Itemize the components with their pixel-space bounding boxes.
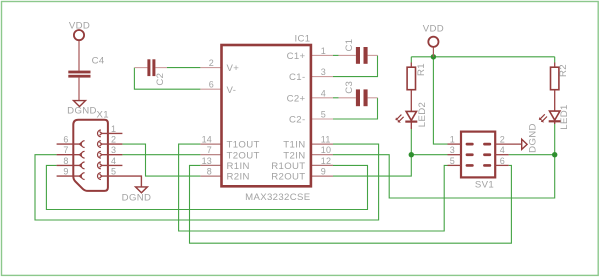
junction LED1 / SV1 pin 4 xyxy=(552,152,557,157)
svg-text:4: 4 xyxy=(500,145,505,155)
svg-text:8: 8 xyxy=(63,156,68,166)
capacitor C4 xyxy=(68,40,90,100)
supply VDD right symbol xyxy=(428,37,438,57)
svg-text:T1IN: T1IN xyxy=(283,140,305,151)
pin stub C3 right xyxy=(368,97,378,99)
X1 pin 1 line xyxy=(102,132,123,134)
resistor R2 xyxy=(551,67,559,90)
svg-text:C1: C1 xyxy=(344,39,355,52)
wire C2 right plate to IC V+ (pin 2) xyxy=(167,67,200,69)
svg-text:4: 4 xyxy=(111,156,116,166)
svg-text:8: 8 xyxy=(207,167,212,177)
svg-text:LED1: LED1 xyxy=(559,104,570,129)
ground DGND below C4 xyxy=(74,101,86,107)
LED2 xyxy=(397,111,417,129)
X1 pin 9 line xyxy=(57,175,80,177)
X1 pin 8 line xyxy=(57,164,80,166)
ground DGND below X1 pin 5 xyxy=(136,187,148,193)
svg-text:LED2: LED2 xyxy=(417,102,428,127)
svg-text:DGND: DGND xyxy=(528,123,539,153)
capacitor C1 xyxy=(356,47,368,64)
svg-text:C4: C4 xyxy=(92,56,105,67)
svg-text:X1: X1 xyxy=(97,109,109,120)
capacitor C3 xyxy=(356,89,368,106)
svg-text:5: 5 xyxy=(450,156,455,166)
svg-text:11: 11 xyxy=(321,135,331,145)
svg-text:5: 5 xyxy=(321,110,326,120)
svg-text:VDD: VDD xyxy=(69,20,90,31)
wire IC C2+ (pin 4) to C3 xyxy=(333,97,339,99)
connector X1 DB9 shell xyxy=(73,120,108,191)
resistor R1 xyxy=(407,67,415,90)
wire X1 pin 7 to IC T1IN (pin 11) xyxy=(35,144,379,220)
pin stub IC pin 4 C2+ xyxy=(311,97,333,99)
svg-text:6: 6 xyxy=(500,156,505,166)
wire IC R1IN (pin 13) to SV1 pin 6 xyxy=(190,165,512,243)
junction below VDD xyxy=(431,54,436,59)
X1 pin 4 line xyxy=(102,164,123,166)
pin stub IC pin 8 R2IN xyxy=(200,175,221,177)
wire IC T1OUT (pin 14) to SV1 pin 5 xyxy=(179,144,448,231)
svg-text:6: 6 xyxy=(209,80,214,90)
svg-text:12: 12 xyxy=(321,156,331,166)
header SV1 body xyxy=(461,132,495,178)
svg-text:R2OUT: R2OUT xyxy=(271,172,305,183)
svg-text:DGND: DGND xyxy=(122,192,152,203)
pin stub C2 right xyxy=(155,67,167,69)
svg-text:V+: V+ xyxy=(227,63,240,74)
pin stub IC pin 2 V+ xyxy=(200,67,221,69)
svg-text:R1: R1 xyxy=(416,63,427,76)
svg-text:10: 10 xyxy=(321,145,331,155)
svg-text:3: 3 xyxy=(321,67,326,77)
pin stub IC pin 6 V- xyxy=(200,88,221,90)
svg-text:2: 2 xyxy=(111,135,116,145)
svg-text:V-: V- xyxy=(227,85,237,96)
wire IC C1+ (pin 1) to C1 xyxy=(333,54,339,56)
svg-text:R2: R2 xyxy=(558,64,569,77)
svg-text:9: 9 xyxy=(321,167,326,177)
svg-text:C1-: C1- xyxy=(289,72,306,83)
svg-text:SV1: SV1 xyxy=(475,180,494,191)
svg-text:C2+: C2+ xyxy=(287,93,306,104)
junction LED2 / SV1 pin 3 xyxy=(409,152,414,157)
svg-text:3: 3 xyxy=(450,145,455,155)
capacitor C2 xyxy=(147,59,155,76)
wire IC R2OUT (pin 9) to LED2 and SV1 pin 3 xyxy=(333,129,448,176)
IC U1 MAX3232CSE body xyxy=(222,45,311,186)
pin stub C1 right xyxy=(368,54,378,56)
svg-text:1: 1 xyxy=(450,135,455,145)
X1 pin 3 line xyxy=(102,154,123,156)
resistor R1 pins xyxy=(410,63,412,112)
wire IC T2IN (pin 10) to LED1 and SV1 pin 4 xyxy=(333,124,555,198)
svg-text:2: 2 xyxy=(500,135,505,145)
svg-text:3: 3 xyxy=(111,145,116,155)
pin stub C3 left xyxy=(339,97,356,99)
svg-text:T1OUT: T1OUT xyxy=(227,140,260,151)
X1 contacts (right column pins 1-5) xyxy=(98,130,102,180)
SV1 pin lines xyxy=(448,144,522,165)
SV1 pads xyxy=(466,143,492,167)
pin stub IC pin 12 R1OUT xyxy=(311,164,333,166)
pin stub IC pin 13 R1IN xyxy=(200,164,221,166)
svg-text:T2OUT: T2OUT xyxy=(227,150,260,161)
pin stub IC pin 11 T1IN xyxy=(311,143,333,145)
svg-text:IC1: IC1 xyxy=(295,34,311,45)
svg-text:C2-: C2- xyxy=(289,115,306,126)
svg-text:C1+: C1+ xyxy=(287,51,306,62)
pin stub IC pin 10 T2IN xyxy=(311,154,333,156)
ground DGND at SV1 pin 2 xyxy=(522,139,527,149)
svg-text:1: 1 xyxy=(111,124,116,134)
X1 pin 5 line to DGND xyxy=(102,176,142,187)
wire C1 right plate to IC C1- (pin 3) xyxy=(333,55,378,76)
supply VDD left symbol xyxy=(74,30,84,40)
svg-text:C3: C3 xyxy=(344,81,355,94)
LED1 xyxy=(540,111,560,124)
X1 contacts (left column pins 6-9) xyxy=(79,141,84,180)
X1 pin 6 line xyxy=(57,143,80,145)
wire X1 pin 2 to IC R2IN (pin 8) xyxy=(122,144,200,176)
pin stub IC pin 9 R2OUT xyxy=(311,175,333,177)
pin stub IC pin 7 T2OUT xyxy=(200,154,221,156)
wire X1 pin 8 to IC R1OUT (pin 12) xyxy=(46,165,367,209)
wire C3 right plate to IC C2- (pin 5) xyxy=(333,98,378,119)
svg-text:R1IN: R1IN xyxy=(227,161,250,172)
svg-text:DGND: DGND xyxy=(67,105,97,116)
wire X1 pin 3 to IC T2OUT (pin 7) xyxy=(122,154,200,156)
svg-text:7: 7 xyxy=(63,145,68,155)
X1 pin 2 line xyxy=(102,143,123,145)
svg-text:R1OUT: R1OUT xyxy=(271,161,305,172)
resistor R2 pins xyxy=(554,63,556,112)
svg-text:T2IN: T2IN xyxy=(283,150,305,161)
pin stub IC pin 5 C2- xyxy=(311,118,333,120)
svg-text:4: 4 xyxy=(321,88,326,98)
svg-text:6: 6 xyxy=(63,135,68,145)
X1 pin 7 line xyxy=(57,154,80,156)
svg-text:14: 14 xyxy=(202,135,212,145)
svg-text:7: 7 xyxy=(207,145,212,155)
svg-text:MAX3232CSE: MAX3232CSE xyxy=(245,192,310,203)
svg-text:9: 9 xyxy=(63,167,68,177)
pin stub IC pin 1 C1+ xyxy=(311,54,333,56)
svg-text:C2: C2 xyxy=(155,73,166,86)
svg-text:R2IN: R2IN xyxy=(227,172,250,183)
pin stub IC pin 3 C1- xyxy=(311,76,333,78)
pin stub C2 left xyxy=(134,67,147,69)
svg-text:5: 5 xyxy=(111,167,116,177)
svg-text:13: 13 xyxy=(202,156,212,166)
wire C2 left plate to IC V- (pin 6) xyxy=(134,68,200,90)
pin stub C1 left xyxy=(339,54,356,56)
X1 pin lines xyxy=(57,133,142,187)
svg-text:2: 2 xyxy=(209,58,214,68)
pin stub IC pin 14 T1OUT xyxy=(200,143,221,145)
svg-text:1: 1 xyxy=(321,46,326,56)
svg-text:VDD: VDD xyxy=(423,23,444,34)
wire net VDD rail xyxy=(411,57,554,144)
